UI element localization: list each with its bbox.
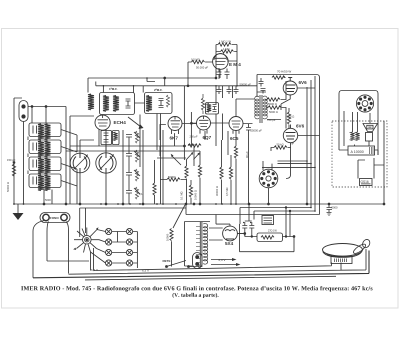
coil box L3 [29, 157, 61, 174]
lamp P4 [106, 260, 112, 266]
resistor R-vol [185, 166, 188, 178]
resistor R-osc [153, 183, 156, 195]
svg-text:6,3 V: 6,3 V [142, 269, 149, 273]
wire top bus y87 [96, 82, 257, 93]
wire trimmer verticals [123, 130, 143, 204]
speaker cone [363, 124, 378, 132]
IF transformer T1 [100, 93, 135, 115]
node w2 [188, 266, 190, 268]
resistor R-k3 [234, 146, 237, 158]
socket X1 octal [259, 169, 278, 188]
wire plug drops [339, 111, 378, 155]
svg-text:6,3 V: 6,3 V [91, 268, 98, 272]
wire 6C5 cathode [235, 159, 237, 204]
field coil label box [262, 216, 274, 225]
node avc1 [184, 145, 186, 147]
node p1 [383, 203, 385, 205]
wire speaker plug loop [339, 91, 378, 114]
node f4 [285, 207, 287, 209]
wire top bus y79 [88, 78, 216, 93]
resistor R-g2 [268, 106, 281, 109]
speaker voice coil [350, 132, 354, 141]
svg-text:10000 Ω: 10000 Ω [194, 190, 198, 200]
node f6 [285, 236, 287, 238]
resistor R-sg [287, 112, 290, 124]
svg-text:150 pF: 150 pF [7, 158, 16, 162]
IF transformer T2 [145, 93, 173, 114]
wire filter [237, 204, 294, 252]
wire grid leads [257, 81, 286, 129]
node w1 [166, 266, 168, 268]
coil box L4 [29, 174, 61, 191]
band switch wires [76, 135, 78, 204]
svg-text:70 H/50 W: 70 H/50 W [277, 70, 291, 74]
svg-text:27Ω 1W: 27Ω 1W [268, 230, 277, 233]
svg-text:0,5 MΩ: 0,5 MΩ [191, 58, 200, 62]
node f3 [244, 233, 246, 235]
svg-text:700 pF: 700 pF [267, 118, 276, 122]
resistor R-em2 [221, 50, 234, 53]
antenna lead wire [14, 98, 22, 204]
resistor R-line [170, 229, 173, 241]
ground bus wire [14, 203, 384, 205]
node f1 [248, 203, 250, 205]
resistor R-k1 [188, 144, 201, 147]
svg-text:50000: 50000 [188, 143, 196, 147]
svg-text:RETE: RETE [163, 259, 171, 263]
capacitor C-g1 [246, 124, 251, 204]
capacitor C-dec2 [227, 86, 232, 94]
turntable platter [323, 244, 363, 258]
wire lamp rows [91, 230, 138, 269]
node m2 [199, 203, 201, 205]
wire osc area [140, 114, 163, 205]
speaker hum coil [355, 132, 359, 141]
svg-text:6Q7: 6Q7 [203, 135, 212, 140]
lamp P6 [126, 239, 132, 245]
caption line 2 [173, 293, 219, 298]
svg-text:30000 Ω: 30000 Ω [215, 186, 219, 196]
pickup arm [352, 238, 371, 255]
node ant junction [13, 162, 15, 164]
svg-text:NF: NF [291, 142, 295, 146]
field coil box A10000 [348, 146, 375, 155]
svg-text:200 Ω: 200 Ω [287, 115, 294, 119]
bus junction dots [13, 77, 316, 212]
capacitor C-f2 [249, 222, 254, 237]
trimmer C3 row2 [126, 150, 140, 162]
wire gang tops [80, 140, 106, 204]
wire line switch [167, 241, 200, 266]
wire HT verticals [307, 76, 315, 167]
svg-text:1 MΩ 1 W: 1 MΩ 1 W [219, 40, 231, 44]
node h2 [185, 203, 187, 205]
resistor R-g1 [267, 98, 280, 101]
wire amp top loop [257, 75, 320, 215]
svg-text:5000 Ω: 5000 Ω [268, 102, 277, 106]
rotary switch S2 [73, 227, 99, 252]
turntable motor base [331, 257, 352, 264]
wire right-mid [216, 86, 233, 204]
tube ECH4 [95, 115, 110, 151]
svg-text:50 kΩ: 50 kΩ [277, 143, 284, 147]
svg-text:5000: 5000 [332, 206, 338, 210]
wire coil feeds [24, 107, 53, 205]
svg-text:6C5: 6C5 [230, 136, 239, 141]
wire mains drop diagonal [173, 205, 185, 228]
socket X2 speaker plug [356, 95, 373, 112]
svg-text:EM4: EM4 [229, 62, 242, 67]
trimmer C2 row1 [126, 131, 140, 143]
lamp P5 [126, 228, 132, 234]
wire star drops [91, 248, 200, 271]
wire fono drop [33, 221, 89, 278]
capacitor C-amp2 [261, 89, 266, 94]
svg-text:50.000 pF: 50.000 pF [196, 66, 208, 70]
node e1 [215, 77, 217, 79]
lamp P7 [126, 249, 132, 255]
pickup terminal box GS16 [360, 179, 373, 186]
band switch S1 diagonals [61, 130, 77, 187]
wire pickup line B [69, 249, 367, 274]
svg-text:50000 pF: 50000 pF [240, 83, 252, 87]
wire V1 leads [281, 78, 315, 111]
svg-text:40 μF: 40 μF [245, 151, 249, 158]
svg-text:5X4: 5X4 [225, 241, 234, 246]
svg-text:0,1: 0,1 [139, 192, 143, 196]
tube 5X4 rectifier [223, 224, 238, 241]
node g1 [79, 203, 81, 205]
resistor R-av1 [198, 165, 201, 177]
capacitor C-em1 [217, 68, 222, 79]
lamp P8 [126, 260, 132, 266]
phono jack FONO [40, 213, 70, 223]
wire pickup line D [85, 276, 336, 280]
filament arrow 1 [211, 259, 232, 261]
AVC arrow [128, 117, 141, 127]
wire 6K7 drop [160, 125, 236, 147]
output coil box [366, 133, 373, 142]
ground symbol [17, 204, 19, 213]
svg-text:1 MΩ: 1 MΩ [223, 47, 230, 51]
capacitor C-f1 [242, 222, 247, 237]
wire socket horizontals [262, 161, 315, 167]
dashed speaker enclosure [332, 121, 387, 187]
resistor R-b2 [229, 167, 232, 179]
mains plug [193, 253, 203, 269]
tuning gang C1b [96, 153, 116, 173]
resistor R-em1 [218, 43, 231, 46]
wire rectifier leads [209, 215, 245, 241]
lamp P3 [106, 249, 112, 255]
wire motor feed [199, 263, 332, 269]
svg-text:6V6: 6V6 [296, 124, 305, 129]
wire below-bus loops [186, 204, 320, 224]
svg-text:6K7: 6K7 [170, 136, 179, 141]
node t2 [142, 203, 144, 205]
antenna jack J1 [19, 101, 28, 122]
coil box L1 [29, 123, 61, 140]
resistor R-b1 [220, 167, 223, 179]
wire mid AVC lines [66, 86, 200, 160]
potentiometer arrows [172, 154, 199, 166]
IF transformer T3 [206, 103, 219, 115]
node h1 [306, 203, 308, 205]
svg-text:25000 pF: 25000 pF [251, 129, 263, 133]
node f2 [293, 236, 295, 238]
node a4 [65, 203, 67, 205]
wire screen [288, 108, 290, 129]
wire from jack to RF section [28, 107, 94, 205]
resistor R-det [201, 98, 204, 110]
antenna coil La [88, 94, 94, 110]
wire Rk2 [271, 148, 291, 152]
wire socket feeds [263, 161, 272, 204]
resistor R-k2 [274, 146, 287, 149]
svg-text:ECH4: ECH4 [114, 120, 127, 125]
svg-text:5000 Ω: 5000 Ω [269, 110, 278, 114]
filament arrow 2 [211, 264, 236, 266]
capacitor C-em2 [225, 69, 230, 80]
svg-text:0,1 MΩ: 0,1 MΩ [180, 192, 184, 200]
node f5 [289, 210, 291, 212]
node a2 [45, 106, 47, 108]
field coil box [257, 233, 283, 242]
node c1 [328, 203, 330, 205]
wire V2 leads [286, 136, 320, 179]
svg-text:250 pF: 250 pF [190, 135, 198, 139]
svg-text:0,5 MΩ: 0,5 MΩ [225, 188, 229, 196]
svg-text:A 10000: A 10000 [351, 150, 364, 154]
node m1 [193, 203, 195, 205]
transformer T4 interstage [255, 95, 268, 123]
node avc2 [191, 122, 193, 124]
tube 6C5 [229, 117, 243, 134]
svg-text:5000: 5000 [45, 198, 51, 202]
capacitor C-line [327, 204, 333, 212]
coil box L2 [29, 140, 61, 157]
resistor R-em3 [192, 60, 205, 63]
tube 6K7 [168, 117, 182, 135]
tube 6V6 V2 [283, 125, 297, 143]
trimmer C4 row3 [126, 169, 140, 181]
tube 6Q7 [197, 116, 211, 134]
node a3 [43, 203, 45, 205]
node tb1 [164, 77, 166, 79]
svg-text:50000: 50000 [168, 175, 176, 179]
capacitor C-amp1 [259, 78, 264, 87]
wire pickup links [358, 121, 384, 204]
tuning gang C1a [70, 153, 90, 173]
lamp P1 [106, 228, 112, 234]
svg-text:GS16: GS16 [361, 180, 369, 184]
power transformer T5 [196, 222, 208, 267]
wire mid-resistors [160, 146, 200, 204]
trimmer C5 row4 [126, 187, 140, 199]
wire lamp top [80, 208, 186, 237]
node e2 [187, 85, 189, 87]
resistor R-det2 [167, 178, 180, 181]
svg-text:1ªM.F.: 1ªM.F. [109, 87, 118, 91]
lamp P2 [106, 239, 112, 245]
tube 6V6 V1 [283, 78, 297, 96]
node s1 [268, 203, 270, 205]
svg-text:6,3 V: 6,3 V [219, 258, 226, 262]
ground line cap [327, 213, 332, 216]
tube EM4 [213, 54, 229, 70]
svg-text:2ªM.F.: 2ªM.F. [154, 88, 163, 92]
wire tube links [135, 99, 255, 124]
resistor R-av2 [189, 185, 192, 197]
wire pickup line A [33, 251, 369, 278]
svg-text:FONO: FONO [50, 216, 59, 220]
oscillator coil box L5 [101, 131, 119, 145]
resistor R-gs1 [272, 76, 285, 79]
svg-text:50000 Ω: 50000 Ω [6, 182, 10, 192]
capacitor C-dec1 [217, 86, 222, 94]
wire EM4 grid [188, 62, 220, 86]
node g2 [105, 203, 107, 205]
svg-text:10000: 10000 [166, 233, 170, 241]
svg-text:6V6: 6V6 [299, 80, 308, 85]
wire transformer frame [185, 222, 211, 267]
wire speaker links [339, 141, 378, 155]
node t1 [122, 203, 124, 205]
wire EM4 loop [216, 45, 237, 86]
capacitor C-dec3 [234, 86, 239, 94]
resistor R-ant [12, 164, 15, 176]
caption line 1 [21, 286, 372, 292]
wire HT drops [307, 161, 315, 211]
node a1 [31, 106, 33, 108]
